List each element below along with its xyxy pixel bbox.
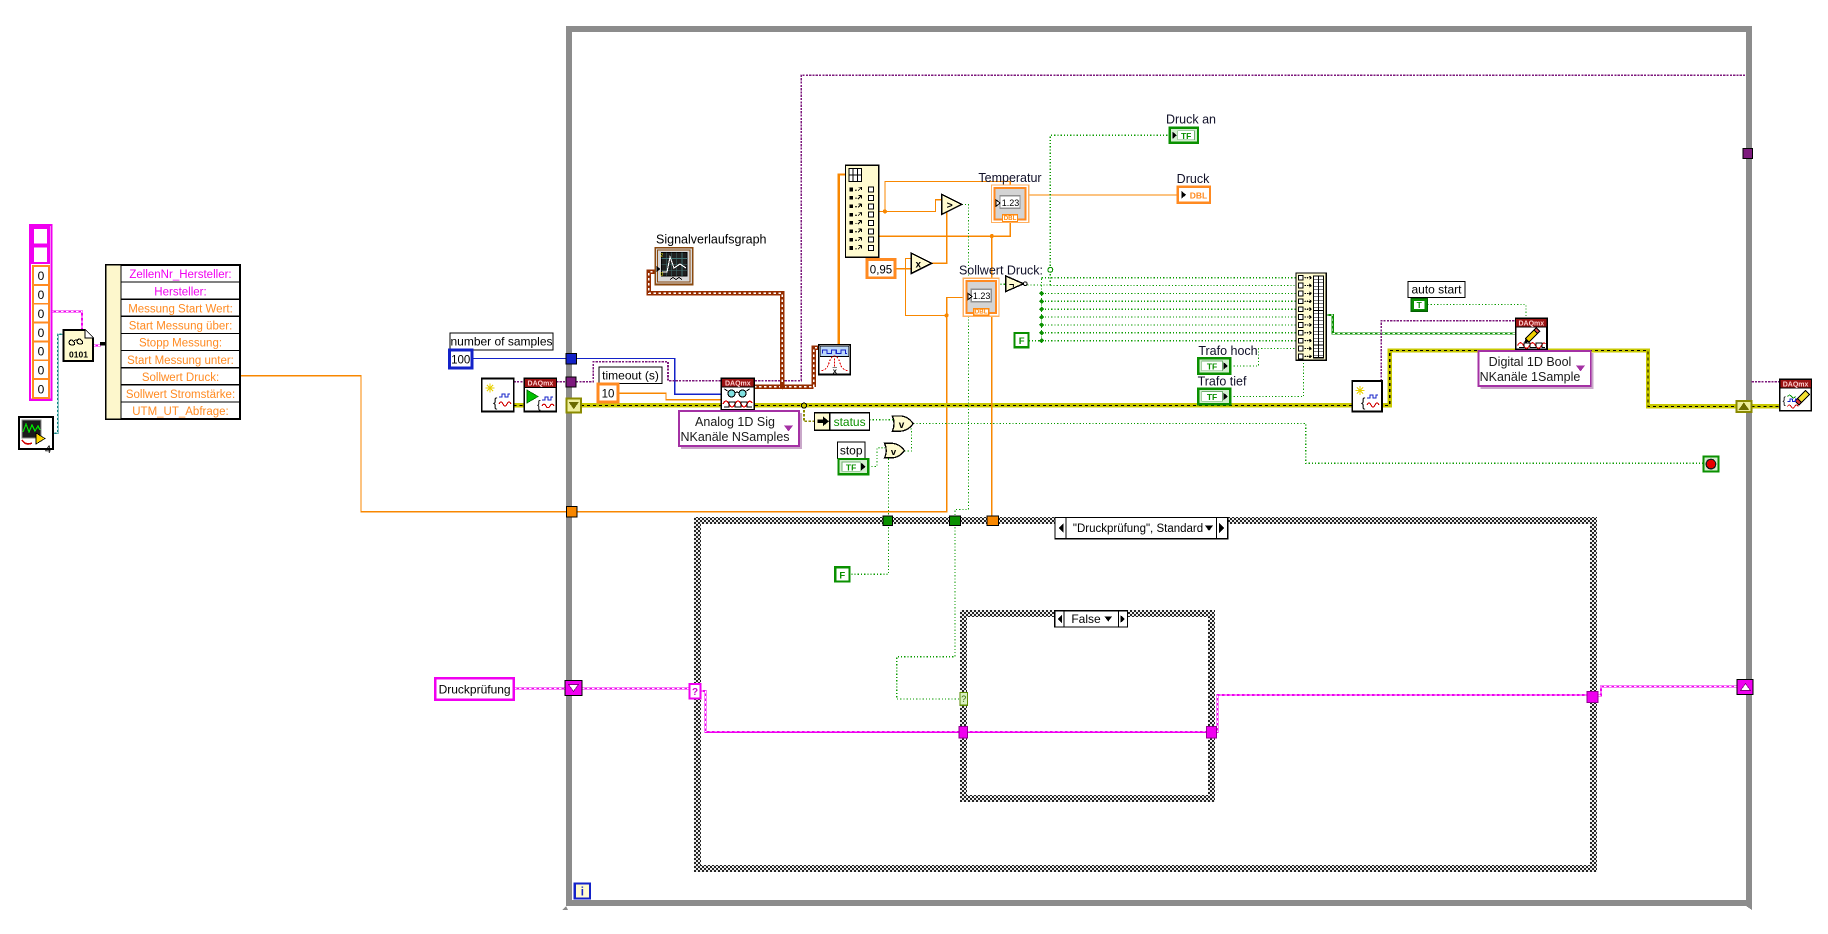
wire: magenta inside case to inner case [701, 691, 959, 732]
svg-text:10: 10 [602, 389, 615, 401]
wires: green bus rows to build array [1042, 277, 1296, 279]
node: unbundle status [814, 413, 869, 431]
wire: purple create channel to DAQmx write [1381, 321, 1515, 381]
svg-text:v: v [891, 447, 897, 458]
indicator: Druck DBL [1177, 172, 1210, 203]
label: auto start [1408, 282, 1465, 298]
svg-text:>: > [947, 200, 953, 212]
wire: error branch to status unbundle [804, 406, 814, 421]
svg-text:¬: ¬ [1009, 280, 1014, 290]
wire: error main rail inside loop [581, 351, 1516, 406]
wire: blue number of samples constant to tunnel [472, 358, 566, 360]
icon: convert dynamic data (graph with 4) [19, 417, 53, 456]
wire: magenta 0101 icon to arrow [93, 345, 101, 347]
wire: orange inside loop to Sollwert Druck indicator [576, 298, 963, 512]
wire: green row2 to build array [1050, 285, 1296, 287]
svg-text:{: { [1361, 395, 1366, 410]
svg-text:Digital 1D Bool: Digital 1D Bool [1489, 355, 1572, 369]
svg-text:Sollwert Druck:: Sollwert Druck: [142, 372, 219, 384]
tunnel: orange left [567, 507, 578, 518]
svg-text:Messung Start Wert:: Messung Start Wert: [128, 303, 233, 315]
svg-text:i: i [581, 887, 584, 899]
svg-text:DAQmx: DAQmx [725, 380, 751, 387]
svg-text:DAQmx: DAQmx [1518, 320, 1544, 327]
junction: orange dot row2 [883, 209, 887, 213]
svg-text:Trafo tief: Trafo tief [1198, 375, 1247, 389]
constant: T true [1411, 299, 1428, 312]
case structure "Druckpruefung", Standard [698, 521, 1594, 869]
wire: orange timeout 10 to DAQmx read [618, 393, 721, 400]
shift register: error left [567, 399, 582, 413]
svg-text:0: 0 [38, 363, 45, 377]
wire: orange Sollwert Druck from table to loop tunnel [240, 376, 567, 512]
constant: F false inside case [835, 567, 849, 581]
tunnel: purple task left [566, 377, 576, 387]
svg-text:F: F [839, 570, 845, 581]
while loop [562, 29, 1752, 910]
wire: orange 0,95 to multiply [895, 268, 911, 270]
selector: inner case question mark [960, 693, 968, 706]
icon: DAQmx create task [482, 379, 514, 412]
wire: orange index row to Temperatur bottom and case tunnel [879, 221, 1011, 236]
wire: magenta inner case to case right tunnel [1216, 695, 1587, 732]
shift register: magenta left [565, 681, 582, 696]
svg-text:auto start: auto start [1411, 283, 1462, 297]
svg-text:0: 0 [38, 382, 45, 396]
tunnel: magenta inner case right [1206, 726, 1216, 738]
wire: dynamic data to mean VI [814, 348, 819, 387]
svg-text:"Druckprüfung", Standard: "Druckprüfung", Standard [1073, 523, 1203, 535]
junction: green ring [1048, 267, 1053, 272]
svg-text:Temperatur: Temperatur [978, 171, 1041, 185]
tunnel: blue number of samples [566, 354, 577, 365]
svg-text:DAQmx: DAQmx [528, 381, 554, 388]
svg-text:DBL: DBL [1190, 191, 1207, 201]
tunnel: green case 2 [950, 516, 961, 525]
icon: DAQmx start task [524, 379, 556, 412]
tunnel: magenta case right [1587, 692, 1598, 703]
svg-text:0: 0 [38, 326, 45, 340]
icon: DAQmx read [721, 378, 754, 409]
junction: orange dot at Sollwert branch [945, 313, 949, 317]
wire: orange index row to greater-than [879, 200, 942, 212]
wire: purple task inside loop to DAQmx read and top rail [576, 75, 1746, 382]
array indicator: string array frame [30, 225, 51, 400]
function: not gate [1006, 276, 1024, 292]
node: unbundle by name table [106, 265, 240, 419]
svg-text:0: 0 [660, 272, 663, 278]
indicator: Temperatur DBL [978, 171, 1041, 223]
wire: magenta string array to 0101 icon [51, 312, 82, 330]
svg-text:{: { [493, 395, 498, 410]
wire: green greater-than output to case tunnel [955, 204, 969, 518]
function: or gate 2 [885, 443, 905, 458]
icon: mean / averaged DC-RMS VI [819, 345, 850, 375]
tunnel: green case 1 [883, 516, 893, 525]
svg-text:NKanäle 1Sample: NKanäle 1Sample [1480, 370, 1581, 384]
wire: green bool array build array to DAQmx write [1326, 315, 1515, 334]
svg-text:False: False [1071, 612, 1101, 626]
svg-text:Druckprüfung: Druckprüfung [439, 683, 511, 697]
wire: orange array mean VI to index array [839, 174, 846, 345]
function: or gate 1 [892, 416, 913, 431]
svg-text:Start Messung über:: Start Messung über: [129, 321, 233, 333]
function: multiply [911, 253, 931, 273]
shift register: error right [1736, 401, 1751, 412]
wire: magenta inside loop to case selector [582, 688, 690, 690]
dropdown: Digital 1D Bool NKanaele 1Sample [1479, 351, 1593, 388]
constant: 0,95 [867, 260, 895, 278]
label: timeout (s) [599, 367, 662, 384]
svg-text:{: { [537, 399, 541, 411]
wire: orange branch to Temperatur top [885, 182, 1010, 212]
svg-text:DAQmx: DAQmx [1783, 381, 1809, 388]
svg-text:Sollwert Druck:: Sollwert Druck: [959, 264, 1043, 278]
constant: 10 [598, 384, 618, 402]
junction: error wire circle [801, 403, 806, 408]
constant: F false [1015, 333, 1029, 347]
wire: purple DAQmx start to tunnel [556, 381, 566, 383]
svg-text:100: 100 [451, 355, 470, 367]
svg-text:1.23: 1.23 [973, 291, 991, 301]
tunnel: magenta inner case left [959, 726, 968, 738]
wire: error create task to start task [514, 403, 525, 407]
indicator: Druck an TF [1166, 113, 1216, 143]
svg-text:0: 0 [38, 345, 45, 359]
indicator: Sollwert Druck DBL [959, 264, 1043, 317]
wire: green auto start T to DAQmx write [1428, 305, 1527, 319]
wire: magenta through inner case [968, 731, 1207, 733]
function: greater than [942, 194, 962, 214]
svg-text:Hersteller:: Hersteller: [154, 286, 206, 298]
svg-text:0: 0 [38, 307, 45, 321]
svg-text:Sollwert Stromstärke:: Sollwert Stromstärke: [126, 389, 235, 401]
svg-text:Start Messung unter:: Start Messung unter: [127, 355, 234, 367]
svg-text:0: 0 [38, 288, 45, 302]
icon: 0101 scan from string [64, 330, 94, 361]
inner case structure False [964, 614, 1212, 799]
wire: blue inside loop to DAQmx read [577, 359, 722, 395]
svg-text:DBL: DBL [1004, 215, 1017, 222]
wire: purple outside loop to DAQmx clear [1752, 381, 1780, 383]
svg-text:Stopp Messung:: Stopp Messung: [139, 338, 222, 350]
svg-text:Analog 1D Sig: Analog 1D Sig [695, 415, 775, 429]
wire: teal dynamic-data icon to 0101 icon [53, 334, 64, 433]
tunnel: orange case [987, 516, 998, 525]
label: number of samples [450, 333, 553, 350]
node: build array [1296, 273, 1326, 360]
control: loop stop button [1703, 457, 1718, 472]
wire: green F constant vertical bus [1029, 340, 1042, 342]
constant: 100 [450, 350, 473, 368]
wire: green status to or gate [870, 419, 894, 421]
svg-text:0,95: 0,95 [870, 264, 892, 276]
svg-text:TF: TF [1207, 392, 1217, 402]
svg-text:timeout (s): timeout (s) [602, 369, 659, 383]
arrow: black bundle arrow [100, 338, 117, 349]
wire: green or1 out to loop stop button [913, 424, 1703, 464]
junction: orange dot under Temperatur [990, 234, 994, 238]
svg-text:0: 0 [38, 269, 45, 283]
wire: orange branch to multiply input a [906, 259, 947, 316]
wire: error DAQmx write to right shift register [1547, 351, 1737, 407]
control: stop TF [839, 459, 869, 474]
wire: green case F to or2 input via tunnel [888, 459, 890, 519]
svg-text:?: ? [692, 687, 698, 698]
svg-text:DBL: DBL [975, 309, 988, 316]
wire: green case selector wire inside case [897, 527, 960, 699]
case label False [1055, 611, 1128, 627]
tunnel: purple task right [1743, 149, 1752, 159]
svg-text:status: status [834, 415, 866, 429]
wire: error outside loop to DAQmx clear [1751, 404, 1780, 408]
wire: orange multiply out to greater-than [932, 212, 947, 264]
svg-text:TF: TF [1181, 131, 1191, 141]
svg-text:4: 4 [45, 444, 51, 456]
wire: magenta outside case to right shift register [1598, 687, 1737, 696]
svg-text:stop: stop [840, 444, 863, 458]
control: Trafo tief TF [1198, 375, 1247, 405]
svg-text:?: ? [961, 694, 966, 704]
svg-text:x: x [916, 260, 922, 271]
icon: DAQmx write [1516, 319, 1547, 350]
case label "Druckpruefung", Standard [1055, 517, 1228, 538]
node: index array [846, 165, 879, 257]
svg-text:Druck: Druck [1177, 172, 1210, 186]
wire: orange Temperatur to Druck [1029, 194, 1178, 196]
svg-text:v: v [899, 420, 905, 431]
wire: green branch to not gate [969, 283, 1006, 285]
svg-text:Signalverlaufsgraph: Signalverlaufsgraph [656, 233, 767, 247]
svg-text:Druck an: Druck an [1166, 113, 1216, 127]
svg-text:TF: TF [846, 462, 856, 472]
wire: green stop TF to or2 [868, 448, 885, 467]
svg-text:number of samples: number of samples [450, 335, 552, 349]
shift register: magenta right [1737, 680, 1753, 695]
icon: DAQmx create virtual channel [1352, 381, 1382, 412]
wire: purple DAQmx task create to start [514, 381, 525, 383]
dropdown: Analog 1D Sig NKanaele NSamples [679, 411, 801, 448]
wire: green or2 out to or1 [893, 429, 911, 451]
wire: green not gate to junction and Druck an [1027, 284, 1050, 286]
junction: dynamic data dot [780, 384, 785, 389]
wire: green Trafo hoch to build array [1230, 349, 1296, 366]
terminal: loop iteration i [575, 884, 590, 899]
svg-text:F: F [1019, 336, 1025, 347]
svg-text:0101: 0101 [69, 350, 88, 360]
wire: dynamic data DAQmx read to graph terminal [754, 385, 814, 389]
control: Trafo hoch TF [1198, 344, 1257, 374]
wire: green Trafo tief to build array bottom [1230, 360, 1303, 396]
svg-text:UTM_UT_Abfrage:: UTM_UT_Abfrage: [132, 406, 229, 418]
svg-text:TF: TF [1207, 362, 1217, 372]
svg-text:1.23: 1.23 [1002, 198, 1020, 208]
svg-text:ZellenNr_Hersteller:: ZellenNr_Hersteller: [129, 269, 231, 281]
svg-text:Trafo hoch: Trafo hoch [1198, 344, 1257, 358]
icon: DAQmx clear task [1780, 380, 1811, 411]
svg-text:NKanäle NSamples: NKanäle NSamples [680, 430, 789, 444]
terminal: waveform graph icon [655, 248, 692, 285]
svg-text:2: 2 [660, 253, 663, 259]
control: Druckpruefung string [435, 678, 514, 700]
wire: magenta Druckpruefung to left shift register [514, 688, 565, 690]
selector: case question mark [690, 684, 701, 699]
svg-text:T: T [1417, 300, 1423, 310]
label: stop [837, 442, 865, 459]
